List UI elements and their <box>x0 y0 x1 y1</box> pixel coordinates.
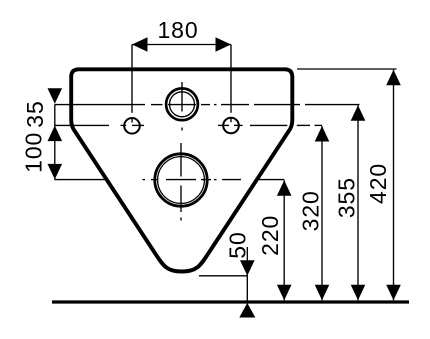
dimension 320 vertical line <box>321 126 323 300</box>
body outline (ceramic pan rear profile) <box>71 69 292 271</box>
extension line from 180 dim to left fixing hole <box>131 45 133 123</box>
arrow 180 right <box>216 37 232 52</box>
svg-text:180: 180 <box>157 17 198 43</box>
arrow 320 bottom <box>315 285 330 301</box>
dimension 355 vertical line <box>357 105 359 300</box>
svg-text:100: 100 <box>21 132 47 173</box>
arrow above line C pointing down (100) <box>48 164 63 180</box>
flush hole outer <box>166 88 198 120</box>
dimension 50 vertical line <box>246 247 248 302</box>
arrow 220 top <box>277 180 292 196</box>
svg-text:320: 320 <box>298 190 324 231</box>
floor line <box>52 300 409 303</box>
centerline A (flush hole axis, 355) <box>55 104 360 106</box>
fixing hole right <box>223 118 239 134</box>
dimension 220 vertical line <box>283 180 285 300</box>
centerline C (outlet axis, 220) <box>55 179 285 181</box>
extension line from 180 dim to right fixing hole <box>230 45 232 123</box>
svg-text:220: 220 <box>257 215 283 256</box>
arrow 220 bottom <box>277 285 292 301</box>
dimension 180 line <box>132 44 231 46</box>
extension line top edge to 420 <box>297 68 397 70</box>
fixing hole left <box>124 118 140 134</box>
svg-text:50: 50 <box>225 231 251 258</box>
arrow 180 left <box>132 37 148 52</box>
vertical centerline flush hole <box>181 82 183 131</box>
dimension 420 vertical line <box>393 70 395 301</box>
arrow below line B pointing up (shared 35/100) <box>48 126 63 142</box>
arrow 355 bottom <box>351 285 366 301</box>
left dimension line (35 / 100) <box>54 105 56 180</box>
extension line outlet bottom to 50 <box>199 275 248 277</box>
arrow 420 top <box>386 70 401 86</box>
arrow above line A pointing down <box>48 88 63 104</box>
datum triangle below floor <box>239 303 255 318</box>
outlet hole outer <box>155 154 207 206</box>
arrow 50 top pointing down <box>240 260 255 276</box>
svg-text:35: 35 <box>22 100 48 127</box>
arrow 320 top <box>315 126 330 142</box>
svg-text:355: 355 <box>334 177 360 218</box>
centerline B (fixing holes axis, 320) <box>55 124 323 126</box>
arrow 420 bottom <box>386 285 401 301</box>
outlet hole inner <box>158 157 205 204</box>
svg-text:420: 420 <box>365 163 391 204</box>
flush hole inner <box>170 92 195 117</box>
arrow 355 top <box>351 105 366 121</box>
vertical centerline outlet hole <box>180 143 182 221</box>
